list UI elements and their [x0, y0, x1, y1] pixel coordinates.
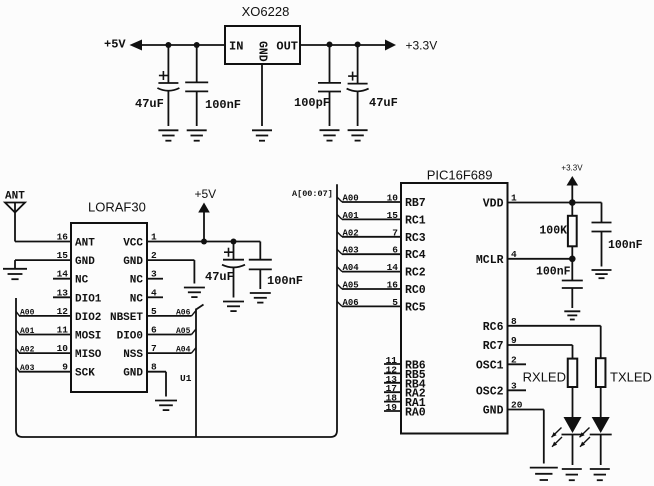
wire pin19 stub [384, 410, 401, 412]
resistor R1 100K [571, 203, 573, 216]
svg-text:RC6: RC6 [483, 321, 504, 334]
svg-text:14: 14 [57, 269, 69, 280]
svg-text:47uF: 47uF [369, 96, 398, 110]
svg-text:15: 15 [57, 250, 69, 261]
svg-text:19: 19 [386, 402, 398, 413]
wire A00 to RB7 [342, 201, 401, 203]
arrow +3.3V output [385, 40, 396, 51]
svg-text:A04: A04 [343, 263, 360, 273]
ground D1 [562, 468, 582, 470]
svg-text:14: 14 [387, 262, 399, 273]
bus entry A01 [337, 214, 342, 219]
wire A03 to RC4 [342, 253, 401, 255]
module U1 LORAF30 [71, 223, 147, 392]
capacitor C4 47uF [357, 45, 359, 84]
svg-text:A00: A00 [20, 308, 35, 317]
svg-text:3: 3 [511, 380, 517, 391]
svg-text:16: 16 [387, 280, 399, 291]
svg-text:A02: A02 [343, 228, 359, 238]
svg-text:47uF: 47uF [135, 97, 164, 111]
capacitor C7 100nF [571, 259, 573, 281]
svg-text:100nF: 100nF [536, 266, 571, 279]
bus entry A05 [337, 284, 342, 289]
wire A04 pin7 [147, 352, 192, 354]
svg-text:13: 13 [57, 287, 69, 298]
svg-text:NSS: NSS [123, 349, 143, 361]
svg-text:NBSET: NBSET [110, 312, 143, 324]
emission arrows D2 [580, 428, 590, 438]
ground C1 [158, 129, 178, 131]
wire GND pin20 [508, 409, 544, 411]
ground pin15 [3, 268, 27, 270]
svg-text:MOSI: MOSI [75, 331, 101, 343]
wire MCLR [508, 258, 573, 260]
svg-text:10: 10 [387, 193, 399, 204]
wire A02 to RC3 [342, 236, 401, 238]
bus entry A01 [16, 330, 20, 335]
ground pin8 [155, 400, 177, 402]
ground pin20 [530, 467, 558, 469]
wire pin13 stub [384, 382, 401, 384]
svg-text:RXLED: RXLED [523, 370, 566, 385]
svg-text:7: 7 [392, 227, 398, 238]
svg-text:RC3: RC3 [405, 232, 426, 245]
svg-text:+5V: +5V [195, 187, 217, 201]
wire A01 to pin11 [19, 334, 71, 336]
bus entry A00 [16, 311, 20, 316]
svg-text:ANT: ANT [75, 238, 95, 250]
wire pin15 GND [15, 259, 71, 261]
bus vertical left [16, 184, 337, 437]
svg-text:XO6228: XO6228 [242, 4, 290, 19]
svg-text:DIO0: DIO0 [117, 331, 143, 343]
junction node VDD [569, 199, 576, 206]
wire pin12 stub [384, 372, 401, 374]
wire pin1 VCC rail [147, 241, 260, 243]
svg-text:100pF: 100pF [294, 96, 330, 110]
wire pin11 stub [384, 363, 401, 365]
svg-text:A01: A01 [343, 211, 360, 221]
svg-text:5: 5 [392, 297, 398, 308]
bus entry A04 [337, 267, 342, 272]
svg-text:RB7: RB7 [405, 197, 426, 210]
svg-text:GND: GND [123, 256, 143, 268]
wire A04 to RC2 [342, 271, 401, 273]
junction node +5V [201, 239, 207, 245]
wire +3.3V output rail [300, 44, 387, 46]
antenna symbol [5, 203, 25, 213]
svg-text:IN: IN [229, 40, 243, 54]
svg-text:NC: NC [130, 275, 144, 287]
wire D2 cathode [600, 435, 602, 465]
svg-text:A05: A05 [176, 327, 191, 336]
bus vertical mid [195, 309, 197, 438]
wire pin17 stub [384, 391, 401, 393]
svg-text:VDD: VDD [483, 198, 504, 211]
svg-text:ANT: ANT [5, 191, 25, 203]
wire RC6 to TXLED resistor [508, 325, 601, 327]
svg-text:A03: A03 [20, 364, 35, 373]
wire A06 to RC5 [342, 305, 401, 307]
svg-text:A00: A00 [343, 194, 359, 204]
svg-text:RC1: RC1 [405, 214, 426, 227]
wire A02 to pin10 [19, 352, 71, 354]
bus entry A06 [337, 301, 342, 306]
ground D2 [590, 468, 610, 470]
svg-text:47uF: 47uF [205, 270, 234, 284]
svg-text:MCLR: MCLR [476, 254, 504, 267]
capacitor C6 100nF [259, 242, 261, 260]
junction node C4 [355, 42, 361, 48]
wire pin13 DIO1 stub [53, 296, 71, 298]
svg-text:DIO2: DIO2 [75, 312, 101, 324]
svg-text:GND: GND [483, 405, 504, 418]
capacitor C5 47uF [233, 242, 235, 260]
mcu U3 PIC16F689 [401, 183, 508, 434]
wire pin2 GND [147, 259, 194, 261]
svg-text:100nF: 100nF [608, 239, 643, 252]
svg-text:A[00:07]: A[00:07] [292, 189, 333, 199]
ground C6 [250, 292, 271, 294]
svg-text:A03: A03 [343, 246, 359, 256]
wire pin8 GND [147, 371, 166, 373]
svg-text:100nF: 100nF [205, 98, 241, 112]
bus entry A02 [16, 349, 20, 354]
bus entry A02 [337, 232, 342, 237]
power arrow +5V [198, 203, 210, 213]
wire pin14 NC stub [53, 278, 71, 280]
ground C5 [223, 301, 244, 303]
wire pin4 NC stub [147, 296, 163, 298]
svg-text:OSC2: OSC2 [476, 385, 504, 398]
svg-text:MISO: MISO [75, 349, 102, 361]
svg-text:GND: GND [256, 41, 269, 62]
svg-text:+3.3V: +3.3V [406, 39, 438, 53]
ground C2 [187, 129, 207, 131]
svg-text:15: 15 [387, 210, 399, 221]
wire R2 to D1 [572, 387, 574, 417]
ground C7 [564, 310, 580, 312]
resistor R2 (RXLED) [568, 359, 578, 387]
arrow +5V input [130, 40, 143, 51]
wire OSC1 stub [508, 363, 527, 365]
wire A06 pin5 [147, 315, 192, 317]
svg-text:+3.3V: +3.3V [561, 164, 583, 173]
ground C4 [348, 129, 368, 131]
wire R3 to D2 [600, 387, 602, 417]
svg-text:RC5: RC5 [405, 301, 426, 314]
wire A00 to pin12 [19, 315, 71, 317]
svg-text:GND: GND [123, 368, 143, 380]
emission arrows D1 [552, 428, 562, 438]
svg-text:TXLED: TXLED [610, 370, 652, 385]
svg-text:RC0: RC0 [405, 284, 426, 297]
wire pin3 NC stub [147, 278, 163, 280]
wire A05 to RC0 [342, 288, 401, 290]
capacitor C3 100pF [329, 45, 331, 83]
bus entry A03 [337, 249, 342, 254]
svg-text:A06: A06 [176, 308, 191, 317]
wire D1 cathode [572, 435, 574, 465]
svg-text:A06: A06 [343, 298, 359, 308]
svg-text:PIC16F689: PIC16F689 [427, 168, 493, 183]
bus entry A00 [337, 197, 342, 202]
svg-text:+5V: +5V [104, 38, 126, 52]
svg-text:16: 16 [57, 232, 69, 243]
bus entry A03 [16, 367, 20, 372]
svg-text:GND: GND [75, 256, 95, 268]
capacitor C8 100nF [601, 203, 603, 223]
ground pin2 [184, 287, 205, 289]
bus entry A04 [192, 348, 197, 354]
wire A01 to RC1 [342, 218, 401, 220]
svg-text:SCK: SCK [75, 368, 95, 380]
bus hook mid [196, 305, 204, 310]
ground C8 [592, 269, 612, 271]
ground C3 [320, 129, 340, 131]
resistor R3 (TXLED) [596, 358, 606, 387]
svg-text:2: 2 [511, 354, 517, 365]
LED D1 RX [564, 417, 582, 433]
junction node C5 [231, 239, 237, 245]
svg-text:RA0: RA0 [405, 407, 426, 420]
svg-text:OSC1: OSC1 [476, 359, 504, 372]
svg-text:A04: A04 [176, 346, 191, 355]
svg-text:U1: U1 [180, 373, 192, 384]
svg-text:OUT: OUT [276, 40, 298, 54]
bus entry A05 [192, 329, 197, 335]
wire OSC2 stub [508, 389, 527, 391]
wire +5V input rail [140, 44, 225, 46]
svg-text:6: 6 [392, 245, 398, 256]
junction node C3 [327, 42, 333, 48]
power arrow +3.3V [567, 176, 579, 186]
svg-text:NC: NC [75, 275, 89, 287]
wire A03 to pin9 [19, 371, 71, 373]
ground regulator [252, 129, 272, 131]
svg-text:RC7: RC7 [483, 340, 504, 353]
svg-text:RC2: RC2 [405, 267, 426, 280]
svg-text:100K: 100K [539, 225, 567, 238]
svg-text:A02: A02 [20, 346, 35, 355]
wire RC7 to RXLED resistor [508, 344, 573, 346]
junction node C2 [194, 42, 200, 48]
junction node MCLR [569, 255, 576, 262]
svg-text:VCC: VCC [123, 238, 143, 250]
svg-text:A05: A05 [343, 281, 359, 291]
wire ANT to pin16 [15, 241, 71, 243]
svg-text:A01: A01 [20, 327, 35, 336]
junction node C1 [165, 42, 171, 48]
wire A05 pin6 [147, 334, 192, 336]
svg-text:100nF: 100nF [267, 274, 303, 288]
bus entry A06 [192, 310, 197, 316]
LED D2 TX [592, 417, 610, 433]
regulator U2 XO6228 [225, 26, 300, 64]
wire pin18 stub [384, 401, 401, 403]
wire regulator GND pin [261, 64, 263, 126]
wire VDD rail [508, 202, 602, 204]
capacitor C2 100nF [196, 45, 198, 82]
svg-text:DIO1: DIO1 [75, 293, 102, 305]
svg-text:RC4: RC4 [405, 249, 426, 262]
capacitor C1 47uF [167, 45, 169, 83]
svg-text:LORAF30: LORAF30 [88, 200, 146, 215]
svg-text:NC: NC [130, 293, 144, 305]
